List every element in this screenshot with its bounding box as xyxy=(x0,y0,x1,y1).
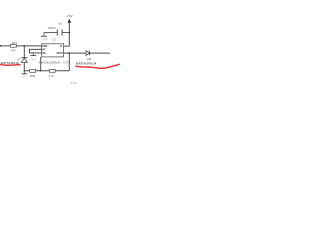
wire pin2/pin3 link xyxy=(30,49,42,53)
diode D7 xyxy=(21,58,27,63)
svg-text:GND: GND xyxy=(22,76,27,78)
resistor R95 xyxy=(49,69,55,72)
junction node riser xyxy=(40,70,42,72)
svg-text:E: E xyxy=(60,44,62,48)
svg-text:4.7k: 4.7k xyxy=(48,74,54,78)
svg-text:GND: GND xyxy=(31,60,36,62)
wire net IN (top horizontal) xyxy=(0,45,42,47)
resistor R11 xyxy=(10,45,16,48)
op-amp IC5 box xyxy=(42,44,64,57)
wire D7 anode down xyxy=(23,62,25,70)
pin labels xyxy=(42,44,63,55)
svg-text:R96: R96 xyxy=(30,74,36,78)
junction node bottom-left xyxy=(24,70,26,72)
wire to D7 cathode xyxy=(23,46,25,58)
svg-text:R11: R11 xyxy=(12,41,18,45)
svg-text:C6: C6 xyxy=(58,21,62,25)
ground (C6) xyxy=(41,33,47,37)
svg-text:IC5: IC5 xyxy=(52,39,57,42)
svg-text:BAT54JFILM: BAT54JFILM xyxy=(76,61,97,65)
svg-text:3.3V: 3.3V xyxy=(71,81,77,85)
svg-text:MA021D8VK.: MA021D8VK. xyxy=(39,61,62,65)
svg-text:OUT: OUT xyxy=(56,51,63,55)
red annotation under D7 text xyxy=(0,63,21,66)
junction node xyxy=(23,45,25,47)
svg-text:1.5V: 1.5V xyxy=(66,14,73,18)
junction node cap xyxy=(68,32,70,34)
wire riser to IC bottom xyxy=(40,57,42,71)
node cut at left edge xyxy=(0,45,1,47)
red annotation under D8 text xyxy=(75,64,120,68)
power flag 1.5V xyxy=(68,19,72,23)
wire OUT net xyxy=(64,52,110,54)
junction node OUT xyxy=(68,52,70,54)
ground (bottom left) xyxy=(22,71,28,74)
resistor R96 xyxy=(30,69,36,72)
svg-text:100nF: 100nF xyxy=(47,26,56,30)
svg-text:DI-: DI- xyxy=(42,51,46,55)
ground (pin3) xyxy=(30,53,36,56)
wire 1.5V to pin E xyxy=(64,23,70,46)
wire feedback riser xyxy=(68,53,70,71)
svg-text:47k: 47k xyxy=(11,48,16,52)
capacitor C6 xyxy=(44,29,69,35)
wire bottom feedback net xyxy=(24,70,69,72)
diode D8 xyxy=(86,51,90,56)
svg-text:GND: GND xyxy=(42,39,47,41)
